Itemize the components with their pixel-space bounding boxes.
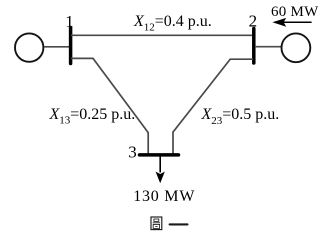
svg-text:60 MW: 60 MW [271,4,319,20]
bus 3 [140,153,179,157]
generator G1 [15,33,43,61]
svg-text:2: 2 [249,12,258,31]
svg-text:X23=0.5 p.u.: X23=0.5 p.u. [201,106,280,127]
arrow 60 MW injection at bus 2 [272,18,311,27]
load arrow 130 MW at bus 3 [156,156,165,183]
svg-text:1: 1 [65,12,74,31]
svg-text:3: 3 [128,143,137,162]
bus 1 [69,28,73,64]
svg-text:X13=0.25 p.u.: X13=0.25 p.u. [49,106,136,127]
bus 2 [252,29,256,64]
wire X12 bus1-bus2 [71,34,253,36]
wire X23 bus2-bus3 [173,59,253,153]
wire bus 2 to G2 [255,46,281,48]
generator G2 [282,33,311,62]
wire G1 to bus 1 [44,46,70,48]
svg-text:X12=0.4 p.u.: X12=0.4 p.u. [133,13,212,34]
wire X13 bus1-bus3 [71,58,148,153]
svg-text:130 MW: 130 MW [133,188,195,205]
caption 圖一 (Figure 1) [151,217,188,230]
